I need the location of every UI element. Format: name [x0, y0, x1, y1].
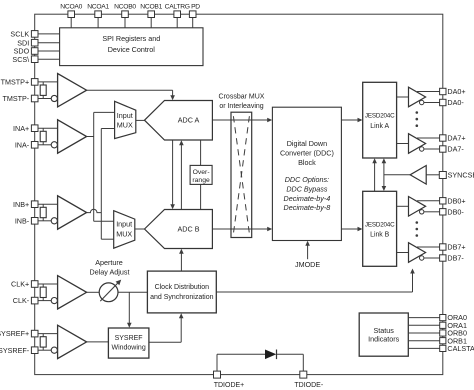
termination resistor INB — [42, 204, 44, 207]
svg-text:Aperture: Aperture — [95, 258, 123, 267]
chip outer boundary — [35, 14, 443, 374]
pin ORB0 — [440, 330, 446, 336]
input buffer INB — [58, 196, 87, 229]
output driver DB0 — [409, 197, 426, 217]
svg-text:DB7-: DB7- — [447, 254, 464, 263]
termination resistor SYSREF — [42, 334, 44, 337]
termination resistor TMSTP — [42, 82, 44, 85]
wire INA- to buffer — [38, 144, 51, 146]
block SPI Registers and Device Control — [60, 28, 203, 66]
pin INB- — [31, 218, 38, 225]
wire TMSTP+ to buffer — [38, 81, 58, 83]
pin INA- — [31, 142, 38, 149]
pin NCOB1 — [148, 11, 155, 18]
svg-text:range: range — [192, 177, 210, 184]
svg-text:SYSREF-: SYSREF- — [0, 346, 30, 355]
wire link A to driver DA0 — [397, 96, 409, 98]
pin DA7+ — [440, 135, 446, 141]
wire link B to driver DB0 — [397, 205, 409, 207]
wire SYSREF windowing to clock distribution — [149, 341, 181, 343]
wire CLK+ to buffer — [38, 283, 58, 285]
wire riser INA to input muxes — [93, 112, 95, 221]
svg-text:INB-: INB- — [15, 216, 30, 225]
block JESD204C Link B — [363, 191, 397, 266]
inverting bubble CLK — [51, 298, 57, 304]
svg-text:NCOB0: NCOB0 — [114, 3, 136, 10]
pin CLK- — [31, 297, 38, 304]
svg-text:Converter (DDC): Converter (DDC) — [280, 148, 334, 157]
input buffer TMSTP — [58, 74, 87, 107]
wire INB+ to buffer — [38, 203, 58, 205]
termination resistor INA — [42, 128, 44, 131]
inverting bubble DA7 — [420, 147, 424, 151]
pin TMSTP- — [31, 95, 38, 102]
wire over-range to ADC B — [200, 184, 202, 209]
svg-text:Windowing: Windowing — [111, 345, 145, 352]
wire ADC B to ADC A sync — [180, 144, 182, 210]
pin TMSTP+ — [31, 79, 38, 86]
wire pin PD to SPI block — [192, 18, 194, 28]
wire pin SCLK to SPI block — [38, 33, 60, 35]
svg-text:SPI Registers and: SPI Registers and — [102, 34, 160, 43]
svg-text:DA0+: DA0+ — [447, 87, 465, 96]
svg-text:ADC A: ADC A — [178, 116, 200, 125]
pin SYSREF+ — [31, 330, 38, 337]
wire pin CALTRG to SPI block — [176, 18, 178, 28]
wire clock to SYSREF windowing — [128, 292, 130, 323]
wire JMODE input to DDC — [307, 245, 309, 260]
pin TDIODE- — [300, 371, 307, 378]
svg-text:Link A: Link A — [370, 123, 389, 130]
pin NCOB0 — [122, 11, 129, 18]
svg-text:Device Control: Device Control — [108, 45, 156, 54]
wire SYSREF buffer to windowing — [87, 341, 109, 343]
inverting bubble INA — [51, 142, 57, 148]
svg-text:ADC B: ADC B — [178, 224, 200, 233]
wire clock to ADC B — [180, 253, 182, 272]
wire pin SDO to SPI block — [38, 50, 60, 52]
svg-text:or Interleaving: or Interleaving — [219, 103, 263, 110]
termination resistor CLK — [42, 284, 44, 287]
wire INA+ to buffer — [38, 127, 58, 129]
wire link A - link B right with SYNCSE — [383, 163, 385, 188]
wire driver DB0 plus output — [417, 200, 440, 202]
pin DA0+ — [440, 88, 446, 94]
svg-text:CALSTAT: CALSTAT — [447, 344, 474, 353]
wire status to pin ORA1 — [408, 324, 439, 326]
pin NCOA0 — [68, 11, 75, 18]
block clock distribution and synchronization — [147, 271, 216, 313]
svg-text:INB+: INB+ — [13, 200, 29, 209]
wire TDIODE+ to diode — [216, 354, 218, 371]
wire CLK- to buffer — [38, 300, 51, 302]
svg-text:INA-: INA- — [15, 140, 30, 149]
inverting bubble TMSTP — [51, 95, 57, 101]
svg-text:Decimate-by-4: Decimate-by-4 — [284, 194, 331, 203]
pin SYSREF- — [31, 347, 38, 354]
wire riser INB to input muxes — [100, 129, 102, 240]
svg-text:JMODE: JMODE — [295, 260, 320, 269]
pin SDI — [31, 39, 38, 46]
wire ADC B data bus to crossbar and DDC — [212, 228, 267, 230]
svg-text:JESD204C: JESD204C — [365, 221, 395, 228]
wire TMSTP buffer output to ADC A — [87, 89, 173, 91]
wire status to pin ORB1 — [408, 340, 439, 342]
pin INA+ — [31, 125, 38, 132]
wire ADC A to ADC B sync — [172, 140, 174, 206]
wire driver DA0 plus output — [417, 91, 440, 93]
svg-text:Decimate-by-8: Decimate-by-8 — [284, 203, 331, 212]
svg-text:Indicators: Indicators — [368, 335, 400, 344]
wire diode to TDIODE- — [277, 353, 304, 355]
wire pin SDI to SPI block — [38, 42, 60, 44]
wire DDC to JESD204C Link A — [341, 119, 358, 121]
output driver DA0 — [409, 87, 426, 107]
svg-text:CLK+: CLK+ — [11, 280, 29, 289]
wire INB- to buffer — [38, 220, 51, 222]
wire status to pin ORB0 — [408, 332, 439, 334]
wire mux B to ADC B — [135, 228, 145, 230]
wire link A to driver DA7 — [397, 143, 409, 145]
pin DB7- — [440, 255, 446, 261]
input mux B — [114, 211, 135, 249]
wire driver DB7 minus output — [424, 257, 440, 259]
svg-text:DB7+: DB7+ — [447, 243, 465, 252]
wire SYSREF+ to buffer — [38, 333, 58, 335]
svg-text:TDIODE+: TDIODE+ — [214, 382, 245, 389]
svg-text:MUX: MUX — [117, 121, 133, 130]
pin DB0- — [440, 209, 446, 215]
wire INA buffer output — [87, 136, 94, 138]
crossbar mux box — [231, 112, 252, 237]
svg-text:Crossbar MUX: Crossbar MUX — [219, 93, 265, 100]
ellipsis dots lane B — [416, 221, 419, 224]
pin CLK+ — [31, 281, 38, 288]
wire SYNCSE receiver to pin — [426, 174, 439, 176]
block status indicators — [359, 313, 408, 356]
pin TDIODE+ — [214, 371, 221, 378]
wire pin NCOA1 to SPI block — [97, 18, 99, 28]
svg-text:MUX: MUX — [116, 229, 132, 238]
wire mux A to ADC A — [136, 119, 145, 121]
ADC A — [145, 101, 213, 141]
thermal diode — [265, 350, 276, 360]
pin DA7- — [440, 146, 446, 152]
pin DB7+ — [440, 244, 446, 250]
svg-text:TDIODE-: TDIODE- — [294, 382, 323, 389]
output driver DA7 — [409, 134, 426, 154]
svg-text:DDC Options:: DDC Options: — [285, 175, 329, 184]
wire INB buffer output with hop — [87, 209, 102, 212]
svg-text:Input: Input — [117, 111, 133, 120]
svg-text:DA0-: DA0- — [447, 98, 464, 107]
svg-text:CLK-: CLK- — [13, 296, 30, 305]
input buffer CLK — [58, 276, 87, 309]
wire pin SCS\ to SPI block — [38, 58, 60, 60]
input mux A — [115, 101, 136, 138]
inverting bubble DB7 — [420, 256, 424, 260]
svg-text:NCOB1: NCOB1 — [140, 3, 162, 10]
inverting bubble DA0 — [420, 100, 424, 104]
pin CALTRG — [174, 11, 181, 18]
svg-text:DA7+: DA7+ — [447, 134, 465, 143]
wire driver DA0 minus output — [424, 102, 440, 104]
block digital down converter — [272, 107, 341, 240]
svg-text:Clock Distribution: Clock Distribution — [155, 284, 210, 291]
svg-text:Link B: Link B — [370, 232, 390, 239]
wire link A - link B left — [374, 163, 376, 192]
svg-text:and Synchronization: and Synchronization — [150, 294, 214, 301]
svg-text:TMSTP+: TMSTP+ — [1, 78, 30, 87]
pin CALSTAT — [440, 345, 446, 351]
svg-text:INA+: INA+ — [13, 124, 29, 133]
pin ORA1 — [440, 322, 446, 328]
wire clock distribution output to serializers — [216, 291, 412, 293]
wire driver DA7 minus output — [424, 148, 440, 150]
pin PD — [189, 11, 196, 18]
svg-text:Over-: Over- — [193, 169, 210, 176]
ellipsis dots lane A — [416, 111, 419, 114]
svg-text:DDC Bypass: DDC Bypass — [286, 184, 328, 193]
input buffer SYSREF — [58, 325, 87, 358]
svg-text:CALTRG: CALTRG — [165, 3, 190, 10]
svg-text:JESD204C: JESD204C — [365, 113, 395, 120]
inverting bubble DB0 — [420, 210, 424, 214]
pin SDO — [31, 48, 38, 55]
block JESD204C Link A — [363, 82, 397, 158]
wire ADC A data bus to crossbar and DDC — [212, 119, 267, 121]
block SYSREF windowing — [108, 328, 148, 358]
input buffer INA — [58, 120, 87, 153]
wire driver DB0 minus output — [424, 211, 440, 213]
svg-text:Block: Block — [298, 158, 316, 167]
wire pin NCOA0 to SPI block — [70, 18, 72, 28]
wire status to pin CALSTAT — [408, 347, 439, 349]
inverting bubble INB — [51, 218, 57, 224]
pin DB0+ — [440, 198, 446, 204]
svg-text:SCLK: SCLK — [10, 30, 29, 39]
SYNCSE receiver — [410, 166, 426, 185]
svg-text:Input: Input — [116, 220, 132, 229]
wire driver DB7 plus output — [417, 246, 440, 248]
svg-text:SYSREF: SYSREF — [115, 335, 143, 342]
output driver DB7 — [409, 243, 426, 263]
svg-text:Digital Down: Digital Down — [287, 139, 327, 148]
wire link B to driver DB7 — [397, 252, 409, 254]
pin ORB1 — [440, 338, 446, 344]
svg-text:Delay Adjust: Delay Adjust — [90, 268, 130, 277]
svg-text:NCOA1: NCOA1 — [87, 3, 109, 10]
wire SYSREF- to buffer — [38, 349, 51, 351]
pin SCS\ — [31, 56, 38, 63]
pin NCOA1 — [95, 11, 102, 18]
wire pin NCOB0 to SPI block — [124, 18, 126, 28]
wire ADC A to over-range — [200, 140, 202, 165]
inverting bubble SYSREF — [51, 347, 57, 353]
aperture delay adjust element — [99, 283, 118, 302]
pin SYNCSE — [439, 172, 446, 179]
wire CLK buffer to aperture delay — [87, 291, 100, 293]
svg-text:DB0+: DB0+ — [447, 196, 465, 205]
svg-text:DB0-: DB0- — [447, 207, 464, 216]
pin INB+ — [31, 201, 38, 208]
block over-range — [190, 165, 212, 184]
wire TMSTP- to buffer — [38, 98, 51, 100]
svg-text:SCS\: SCS\ — [12, 55, 29, 64]
svg-text:TMSTP-: TMSTP- — [2, 94, 29, 103]
svg-text:DA7-: DA7- — [447, 145, 464, 154]
wire status to pin ORA0 — [408, 317, 439, 319]
svg-text:SYNCSE\: SYNCSE\ — [448, 171, 474, 180]
svg-text:NCOA0: NCOA0 — [60, 3, 82, 10]
wire pin NCOB1 to SPI block — [150, 18, 152, 28]
svg-text:PD: PD — [191, 3, 200, 10]
ADC B — [145, 210, 213, 249]
wire aperture delay to clock distribution — [118, 291, 147, 293]
wire DDC to JESD204C Link B — [341, 228, 358, 230]
crossbar dashed cross — [233, 116, 249, 233]
pin ORA0 — [440, 315, 446, 321]
pin DA0- — [440, 99, 446, 105]
svg-text:SYSREF+: SYSREF+ — [0, 329, 29, 338]
wire driver DA7 plus output — [417, 137, 440, 139]
pin SCLK — [31, 31, 38, 38]
